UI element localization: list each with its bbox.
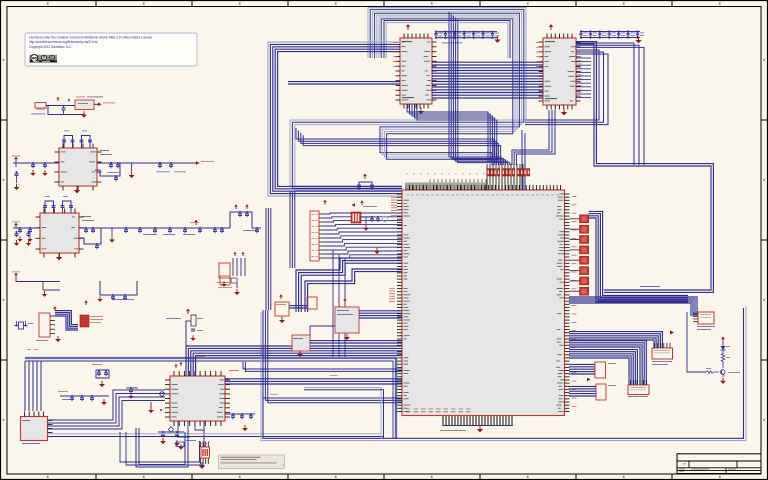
svg-text:Licensed under the Creative Co: Licensed under the Creative Commons Attr… xyxy=(29,36,152,40)
svg-text:Copyright 2012 NewWare LLC: Copyright 2012 NewWare LLC xyxy=(29,45,72,49)
svg-text:http://creativecommons.org/lic: http://creativecommons.org/licenses/by-s… xyxy=(29,40,98,44)
